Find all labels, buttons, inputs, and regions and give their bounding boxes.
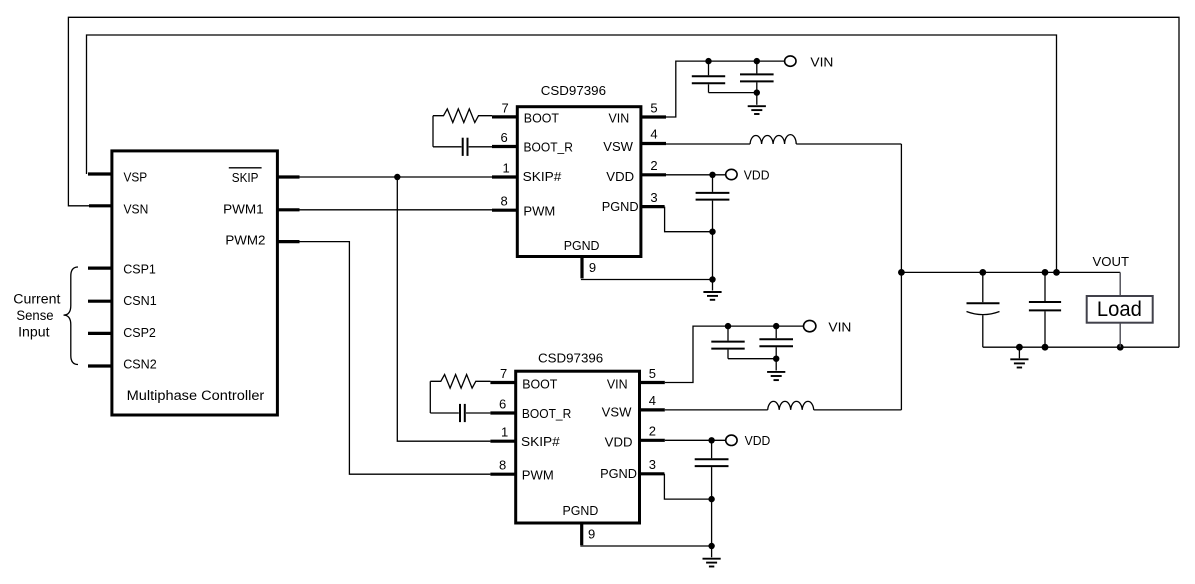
svg-text:2: 2 bbox=[650, 158, 657, 173]
svg-text:VSW: VSW bbox=[603, 139, 633, 154]
svg-text:VIN: VIN bbox=[828, 320, 851, 335]
svg-text:8: 8 bbox=[499, 458, 506, 473]
svg-text:PWM: PWM bbox=[522, 467, 554, 482]
wire load bottom lead bbox=[1119, 323, 1121, 348]
junction C3 ground bbox=[754, 89, 760, 95]
svg-text:5: 5 bbox=[650, 101, 657, 116]
junction C10 top bbox=[1042, 269, 1049, 276]
capacitor C9 bulk electrolytic bbox=[967, 272, 1000, 347]
wire SKIP node down to phase2 SKIP# bbox=[397, 177, 490, 441]
svg-text:VSW: VSW bbox=[602, 405, 632, 420]
U3 pin 8 stub bbox=[490, 473, 515, 476]
svg-text:3: 3 bbox=[649, 457, 656, 472]
svg-text:2: 2 bbox=[649, 424, 656, 439]
svg-text:6: 6 bbox=[499, 396, 506, 411]
ground G1 input caps bbox=[748, 106, 766, 114]
wire U3 PGND pin3 to C8 leg bbox=[664, 474, 711, 499]
capacitor C2 input bbox=[692, 61, 725, 93]
junction PGND pin9 bbox=[709, 276, 715, 282]
wire R1 to C1 left leg bbox=[432, 116, 434, 147]
resistor R2 boot bbox=[430, 375, 490, 389]
U3 pin 2 stub bbox=[640, 439, 665, 442]
wire U2 PGND pin3 to C4 leg bbox=[665, 207, 713, 232]
pin CSN1 stub bbox=[88, 300, 112, 303]
svg-text:6: 6 bbox=[501, 130, 508, 145]
capacitor C3 input bbox=[740, 61, 774, 105]
U3 pin 3 stub bbox=[640, 472, 665, 475]
svg-text:CSD97396: CSD97396 bbox=[538, 350, 603, 365]
ground G5 output bbox=[1010, 347, 1028, 367]
junction VIN rail C7 bbox=[773, 323, 779, 329]
terminal VDD phase1 bbox=[726, 169, 737, 179]
power stage U2 box bbox=[517, 107, 641, 257]
wire U3 PGND pin9 bbox=[580, 545, 711, 547]
inductor L2 bbox=[768, 401, 814, 410]
U3 pin 9 stub bbox=[580, 522, 583, 545]
svg-text:Multiphase Controller: Multiphase Controller bbox=[127, 388, 265, 403]
wire VOUT rail bbox=[901, 271, 1120, 273]
svg-text:PWM2: PWM2 bbox=[225, 233, 265, 248]
svg-text:9: 9 bbox=[588, 526, 595, 541]
junction PGND pin3 phase2 bbox=[708, 496, 714, 502]
wire U2 PGND pin9 bbox=[581, 279, 713, 281]
svg-text:8: 8 bbox=[501, 194, 508, 209]
wire L2 to output node bbox=[814, 409, 902, 411]
junction ground tap bbox=[1016, 344, 1023, 351]
pin PWM2 stub bbox=[278, 240, 300, 243]
svg-text:VSN: VSN bbox=[124, 202, 149, 217]
junction VIN rail C2 bbox=[705, 58, 711, 64]
junction VSP sense tap bbox=[1053, 269, 1060, 276]
wire PWM2 to phase2 PWM bbox=[300, 242, 491, 475]
svg-text:7: 7 bbox=[502, 100, 509, 115]
svg-text:5: 5 bbox=[649, 366, 656, 381]
wire U3 VDD pin bbox=[665, 439, 726, 441]
wire C6 to C7 ground rail bbox=[728, 358, 776, 360]
wire VSN remote sense net bbox=[68, 17, 1179, 347]
U2 pin 4 stub bbox=[641, 142, 666, 145]
terminal VIN phase2 bbox=[804, 320, 816, 331]
svg-text:VSP: VSP bbox=[124, 170, 148, 185]
capacitor C4 vdd bbox=[696, 175, 730, 291]
svg-text:SKIP#: SKIP# bbox=[523, 169, 563, 184]
capacitor C10 ceramic bbox=[1029, 272, 1061, 347]
svg-text:PWM: PWM bbox=[523, 203, 555, 218]
U2 pin 3 stub bbox=[641, 205, 665, 208]
svg-text:Load: Load bbox=[1097, 298, 1142, 321]
capacitor C6 input bbox=[711, 326, 744, 359]
capacitor C7 input bbox=[759, 326, 793, 370]
U2 pin 6 stub bbox=[492, 145, 517, 148]
junction C10 bottom bbox=[1042, 344, 1049, 351]
svg-text:4: 4 bbox=[649, 393, 656, 408]
power stage U3 box bbox=[516, 371, 640, 523]
wire U2 VDD pin bbox=[666, 174, 726, 176]
svg-text:VDD: VDD bbox=[606, 169, 634, 184]
wire output ground rail bbox=[983, 346, 1179, 348]
junction C7 ground bbox=[773, 356, 779, 362]
capacitor C5 boot bbox=[430, 404, 490, 422]
svg-text:CSN2: CSN2 bbox=[123, 357, 157, 372]
svg-text:VIN: VIN bbox=[607, 376, 628, 391]
ground G2 phase1 bbox=[703, 292, 721, 300]
wire C2 to C3 ground rail bbox=[709, 92, 757, 94]
svg-text:PGND: PGND bbox=[563, 503, 599, 518]
pin VSP stub bbox=[88, 172, 112, 175]
svg-text:PGND: PGND bbox=[564, 238, 600, 253]
U2 pin 1 stub bbox=[492, 175, 517, 178]
U3 pin 5 stub bbox=[640, 381, 665, 384]
svg-text:VDD: VDD bbox=[745, 433, 771, 448]
U3 pin 4 stub bbox=[640, 408, 665, 411]
svg-text:BOOT: BOOT bbox=[524, 111, 559, 126]
svg-text:BOOT: BOOT bbox=[522, 376, 557, 391]
svg-text:VDD: VDD bbox=[744, 167, 770, 182]
wire load top lead bbox=[1119, 272, 1121, 296]
pin CSP2 stub bbox=[88, 332, 112, 335]
junction SKIP node bbox=[394, 174, 400, 180]
pin VSN stub bbox=[89, 204, 112, 207]
terminal VDD phase2 bbox=[726, 435, 737, 445]
wire VSP remote sense net bbox=[87, 35, 1057, 272]
svg-text:PGND: PGND bbox=[600, 466, 637, 481]
junction load bottom bbox=[1117, 344, 1124, 351]
multiphase controller U1 box bbox=[112, 151, 278, 415]
load box bbox=[1087, 296, 1153, 323]
resistor R1 boot bbox=[433, 109, 492, 123]
U2 pin 9 stub bbox=[580, 256, 583, 278]
wire SKIP to phase1 SKIP# bbox=[300, 176, 493, 178]
pin PWM1 stub bbox=[278, 208, 300, 211]
SKIP overline bbox=[229, 167, 262, 169]
pin CSN2 stub bbox=[88, 364, 112, 367]
wire phase joining vertical bbox=[900, 144, 902, 410]
svg-text:4: 4 bbox=[650, 127, 657, 142]
U3 pin 1 stub bbox=[490, 440, 515, 443]
svg-text:3: 3 bbox=[650, 190, 657, 205]
svg-text:PGND: PGND bbox=[602, 199, 639, 214]
svg-text:CSN1: CSN1 bbox=[123, 293, 157, 308]
junction VDD C8 bbox=[708, 437, 714, 443]
U2 pin 2 stub bbox=[641, 173, 666, 176]
svg-text:SKIP#: SKIP# bbox=[521, 434, 561, 449]
U2 pin 8 stub bbox=[492, 209, 517, 212]
junction PGND pin3 bbox=[709, 229, 715, 235]
svg-text:1: 1 bbox=[501, 425, 508, 440]
capacitor C8 vdd bbox=[695, 440, 729, 557]
wire PWM1 to phase1 PWM bbox=[300, 209, 493, 211]
svg-text:VOUT: VOUT bbox=[1093, 254, 1130, 269]
U2 pin 5 stub bbox=[641, 115, 666, 118]
ground G4 phase2 bbox=[703, 559, 721, 567]
U3 pin 7 stub bbox=[490, 381, 515, 384]
terminal VIN phase1 bbox=[785, 56, 796, 66]
svg-text:CSD97396: CSD97396 bbox=[541, 83, 606, 98]
svg-text:CSP2: CSP2 bbox=[123, 325, 156, 340]
junction VIN rail C3 bbox=[754, 58, 760, 64]
svg-text:BOOT_R: BOOT_R bbox=[522, 406, 571, 421]
svg-text:VIN: VIN bbox=[810, 54, 833, 69]
U3 pin 6 stub bbox=[490, 411, 515, 414]
svg-text:9: 9 bbox=[589, 260, 596, 275]
current sense brace bbox=[64, 267, 79, 365]
junction VDD C4 bbox=[709, 172, 715, 178]
svg-text:7: 7 bbox=[500, 366, 507, 381]
svg-text:SKIP: SKIP bbox=[232, 170, 259, 185]
svg-text:VIN: VIN bbox=[609, 111, 630, 126]
wire R2 to C5 left leg bbox=[429, 381, 431, 413]
junction output node bbox=[898, 269, 905, 276]
capacitor C1 boot bbox=[433, 138, 492, 156]
wire U2 VIN pin to input rail bbox=[666, 61, 785, 117]
wire U2 VSW pin to inductor L1 bbox=[666, 143, 750, 145]
wire L1 to output node bbox=[796, 143, 901, 145]
svg-text:1: 1 bbox=[503, 160, 510, 175]
wire U3 VSW pin to inductor L2 bbox=[665, 409, 768, 411]
svg-text:CSP1: CSP1 bbox=[123, 261, 156, 276]
svg-text:VDD: VDD bbox=[605, 434, 633, 449]
junction C9 top bbox=[979, 269, 986, 276]
junction PGND pin9 phase2 bbox=[708, 543, 714, 549]
svg-text:Sense: Sense bbox=[16, 308, 53, 323]
junction VIN rail C6 bbox=[725, 323, 731, 329]
U2 pin 7 stub bbox=[492, 115, 517, 118]
svg-text:Current: Current bbox=[13, 291, 60, 306]
wire U3 VIN pin to input rail bbox=[665, 326, 804, 382]
inductor L1 bbox=[750, 135, 796, 144]
svg-text:BOOT_R: BOOT_R bbox=[524, 139, 573, 154]
ground G3 input caps phase2 bbox=[767, 372, 785, 380]
pin CSP1 stub bbox=[88, 267, 112, 270]
svg-text:PWM1: PWM1 bbox=[223, 202, 264, 217]
svg-text:Input: Input bbox=[18, 325, 50, 340]
pin SKIP stub bbox=[278, 175, 300, 178]
